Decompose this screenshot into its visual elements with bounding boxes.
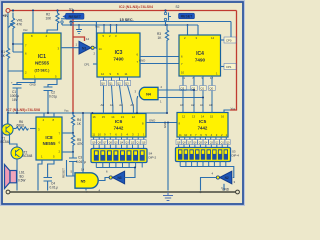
svg-text:N5: N5 xyxy=(81,180,86,184)
svg-text:IC2 (N1-N3)=74LS04: IC2 (N1-N3)=74LS04 xyxy=(119,5,153,9)
svg-text:Vcc: Vcc xyxy=(64,109,69,113)
svg-text:NE555: NE555 xyxy=(43,141,56,146)
+5V terminal xyxy=(6,9,10,13)
node Q label row of IC6 xyxy=(91,140,96,145)
+5V branch wire x73 xyxy=(72,11,74,113)
counter IC3 7490 xyxy=(97,33,140,77)
svg-text:Q1: Q1 xyxy=(201,86,205,90)
svg-text:13: 13 xyxy=(192,114,196,118)
wires IC3 to IC4 xyxy=(140,57,179,64)
svg-text:47K: 47K xyxy=(17,23,24,27)
svg-text:0.047µ: 0.047µ xyxy=(76,160,86,164)
wire T1 collector xyxy=(7,113,9,124)
wires IC3 Q to IC6 A xyxy=(104,77,128,81)
svg-text:GND: GND xyxy=(30,83,36,87)
svg-text:IC8: IC8 xyxy=(45,135,53,140)
svg-text:0.5W: 0.5W xyxy=(18,179,25,183)
svg-text:GND: GND xyxy=(139,59,145,63)
svg-text:C3: C3 xyxy=(78,156,82,160)
svg-text:680Ω: 680Ω xyxy=(17,124,25,128)
counter IC4 7490 xyxy=(179,35,221,76)
svg-text:A2: A2 xyxy=(191,103,195,107)
svg-text:10K: 10K xyxy=(46,17,53,21)
svg-text:10: 10 xyxy=(184,133,188,137)
rail junctions xyxy=(12,9,14,11)
svg-text:7442: 7442 xyxy=(114,126,124,131)
timer IC8 NE555 xyxy=(36,117,62,160)
svg-text:Vcc: Vcc xyxy=(95,25,100,29)
svg-text:Q2: Q2 xyxy=(117,81,121,85)
svg-text:A0: A0 xyxy=(209,103,213,107)
svg-text:IC5: IC5 xyxy=(199,119,207,125)
speaker LS1 xyxy=(5,165,11,189)
resistor R2 xyxy=(47,11,59,34)
resistor R6 xyxy=(30,128,36,130)
svg-text:A0: A0 xyxy=(101,103,105,107)
wire N4 inputs xyxy=(158,90,203,98)
wire supply row y113 xyxy=(8,112,167,114)
wire IC8 pin6 xyxy=(62,151,73,153)
decoder IC5 7442 xyxy=(177,113,228,138)
+5V rail right side xyxy=(230,11,237,111)
svg-text:IC6: IC6 xyxy=(115,119,123,125)
wire C3 to N5 xyxy=(73,167,75,176)
wire N4 output to N5 xyxy=(82,113,84,173)
wires bus to IC3 xyxy=(104,25,117,33)
svg-text:N2: N2 xyxy=(225,176,229,180)
op IC1 NE555 xyxy=(23,33,61,79)
svg-text:13: 13 xyxy=(121,115,125,119)
wire left column down xyxy=(7,71,9,113)
capacitor C1 xyxy=(17,79,35,113)
svg-text:NE555: NE555 xyxy=(35,61,49,66)
wire N2 to ground xyxy=(223,184,225,191)
wire left column to T1 xyxy=(7,113,9,125)
node RESET line xyxy=(67,160,76,176)
wire S4 common xyxy=(96,163,142,168)
Q boxes IC3 xyxy=(100,81,106,86)
svg-text:7442: 7442 xyxy=(198,126,208,131)
wire N3 input from DIP common xyxy=(125,168,135,178)
svg-text:GND: GND xyxy=(163,122,167,128)
svg-text:12: 12 xyxy=(101,72,105,76)
capacitor C2 xyxy=(48,79,57,113)
svg-text:15: 15 xyxy=(102,115,106,119)
svg-text:16V: 16V xyxy=(12,98,19,102)
+5V branch to N1 pin14 xyxy=(73,37,85,41)
svg-text:CP0: CP0 xyxy=(226,39,232,43)
svg-text:RESET: RESET xyxy=(181,15,194,19)
S1 RESET label xyxy=(63,15,67,19)
svg-text:12: 12 xyxy=(132,115,136,119)
svg-text:IC3: IC3 xyxy=(115,50,123,56)
wire IC1 pin3 to N1 xyxy=(61,47,79,49)
switch S4 DIP bank xyxy=(91,149,147,163)
svg-text:DIP-2: DIP-2 xyxy=(149,156,157,160)
svg-text:0.01µ: 0.01µ xyxy=(49,95,57,99)
svg-text:14: 14 xyxy=(211,36,215,40)
node CP1 of IC3 xyxy=(93,63,97,65)
node CP0 of IC4 xyxy=(221,39,225,41)
svg-text:BC548: BC548 xyxy=(23,154,33,158)
wire N2 output xyxy=(201,178,217,191)
wires IC4 Q to IC5 A xyxy=(183,76,212,86)
svg-text:GND: GND xyxy=(149,119,155,123)
resistor R1 xyxy=(6,13,23,72)
transistor T2 xyxy=(11,147,23,159)
svg-text:14: 14 xyxy=(201,114,205,118)
wire VR1 to IC1 pins xyxy=(13,44,23,52)
wire T2 emitter to ground rail xyxy=(16,159,18,191)
svg-text:Vcc: Vcc xyxy=(231,107,236,111)
svg-text:Q1: Q1 xyxy=(109,81,113,85)
svg-text:15: 15 xyxy=(210,114,214,118)
svg-text:A1: A1 xyxy=(110,103,114,107)
svg-text:14: 14 xyxy=(81,168,85,172)
capacitor C4 xyxy=(44,178,53,182)
svg-text:11: 11 xyxy=(125,72,128,76)
svg-text:11: 11 xyxy=(92,133,95,137)
node Q label row of IC5 xyxy=(176,140,181,145)
svg-text:A2: A2 xyxy=(119,103,123,107)
resistor R4 xyxy=(71,112,74,133)
decoder IC6 7442 xyxy=(91,114,146,138)
wire N1 to IC3 xyxy=(94,47,97,49)
svg-text:0.01µ: 0.01µ xyxy=(50,186,58,190)
svg-text:Q0: Q0 xyxy=(210,86,214,90)
svg-text:A3: A3 xyxy=(130,103,134,107)
svg-text:CP1: CP1 xyxy=(226,65,232,69)
svg-text:A1: A1 xyxy=(200,103,204,107)
wire N5 pin7 to ground xyxy=(85,188,87,190)
svg-text:Vcc: Vcc xyxy=(23,28,28,32)
node CP1 of IC4 xyxy=(221,66,225,68)
switch S3 DIP bank xyxy=(176,148,231,162)
svg-text:11: 11 xyxy=(179,133,182,137)
wires IC8 Vcc pins xyxy=(44,113,54,117)
wire N5 output to N3 xyxy=(98,178,109,181)
wire N4 output xyxy=(136,96,139,113)
resistor R5 xyxy=(71,133,74,152)
inverter N1 xyxy=(79,41,91,54)
svg-text:N3: N3 xyxy=(118,176,122,180)
ground symbol xyxy=(163,192,173,201)
border frame xyxy=(1,1,245,206)
svg-text:16: 16 xyxy=(93,115,97,119)
wire rail to IC1 pin8 xyxy=(32,12,34,33)
wire IC6 GND to IC5 xyxy=(146,122,177,124)
svg-text:S2: S2 xyxy=(176,5,180,9)
transistor T1 xyxy=(2,124,13,135)
wire T1 emitter to T2 base xyxy=(10,134,18,148)
wire S3 common xyxy=(180,162,226,167)
wires IC8 grounds and C4 xyxy=(38,160,42,191)
svg-text:10: 10 xyxy=(181,71,185,75)
wire IC8 pin7 xyxy=(62,132,73,134)
svg-text:RESET: RESET xyxy=(68,15,81,19)
svg-text:IC1: IC1 xyxy=(38,54,46,60)
inverter N3 xyxy=(112,171,124,184)
AND gate N5 xyxy=(75,173,98,188)
svg-text:14: 14 xyxy=(99,47,103,51)
resistor R3 xyxy=(165,25,168,113)
svg-text:N1: N1 xyxy=(82,46,86,50)
svg-text:7490: 7490 xyxy=(195,58,206,63)
svg-text:(15 SEC.): (15 SEC.) xyxy=(35,69,50,73)
wire GND column to rail xyxy=(167,123,169,191)
wire Vcc IC5 xyxy=(224,110,230,113)
svg-text:10: 10 xyxy=(98,133,102,137)
Q boxes IC4 xyxy=(180,86,186,91)
svg-text:7490: 7490 xyxy=(113,57,124,62)
svg-text:Q3: Q3 xyxy=(125,81,129,85)
capacitor C3 xyxy=(72,152,74,167)
svg-text:DIP-4: DIP-4 xyxy=(232,154,240,158)
svg-text:GND: GND xyxy=(222,188,230,192)
svg-text:IC7 (N4-N5)=74LS08: IC7 (N4-N5)=74LS08 xyxy=(6,108,40,112)
reset bus xyxy=(62,24,198,26)
potentiometer VR1 xyxy=(12,13,14,19)
S2 RESET label xyxy=(179,13,195,19)
AND gate N4 xyxy=(139,87,158,99)
wire clock bus xyxy=(71,22,231,48)
svg-text:RESET: RESET xyxy=(62,168,66,178)
inverter N2 xyxy=(220,171,232,184)
+5V rail top xyxy=(10,10,237,12)
svg-text:16: 16 xyxy=(221,114,225,118)
ground S1 xyxy=(78,25,80,30)
svg-text:CP1: CP1 xyxy=(84,63,90,67)
svg-text:S1: S1 xyxy=(69,8,73,12)
svg-text:Q0: Q0 xyxy=(101,81,105,85)
svg-text:IC4: IC4 xyxy=(196,51,204,57)
wire IC6 outputs to switches xyxy=(94,137,144,140)
wire IC5 outputs to switches xyxy=(180,137,227,140)
svg-text:14: 14 xyxy=(86,37,90,41)
svg-text:12: 12 xyxy=(182,114,186,118)
ground rail xyxy=(10,191,236,193)
svg-text:A3: A3 xyxy=(180,103,184,107)
svg-text:14: 14 xyxy=(111,115,115,119)
node junction bubble xyxy=(109,176,112,179)
wires bus to IC4 xyxy=(188,25,199,35)
